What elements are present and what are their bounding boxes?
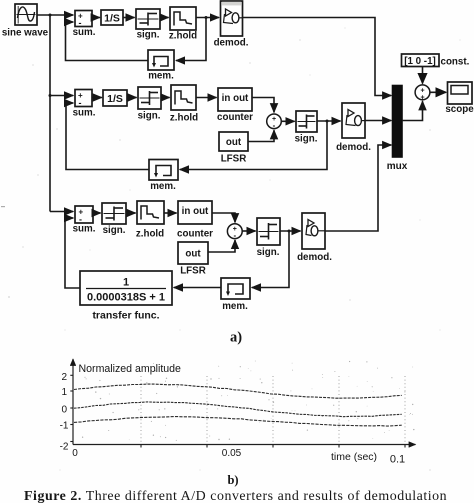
sign block row2 second (295, 111, 318, 145)
zero-order hold block row2 (170, 85, 198, 124)
svg-text:2: 2 (61, 372, 67, 383)
wire memory row1 back to sum S1 minus input (66, 22, 149, 61)
wire sign to z.hold row2 (161, 97, 170, 99)
zero-order hold block row1 (169, 7, 197, 42)
memory block row2 (149, 160, 178, 193)
wire demod3 output up to mux input 3 (325, 145, 391, 231)
svg-text:1: 1 (123, 277, 129, 289)
LFSR block row3 (178, 242, 208, 277)
svg-text:demod.: demod. (336, 142, 371, 153)
svg-text:+: + (420, 95, 424, 102)
svg-text:1: 1 (61, 387, 67, 398)
svg-text:1/S: 1/S (104, 13, 120, 25)
svg-text:0.1: 0.1 (390, 454, 405, 466)
svg-text:LFSR: LFSR (180, 266, 206, 277)
node: junction to memory row2 (326, 120, 329, 123)
wire memory row3 to transfer function (174, 287, 221, 289)
svg-text:mem.: mem. (148, 71, 174, 82)
svg-text:scope: scope (445, 104, 474, 115)
wire sum circle to sign2b (281, 120, 294, 122)
svg-text:b): b) (227, 473, 238, 487)
wire main bus branch to sum S3 plus input (50, 211, 73, 213)
counter block row2 (217, 88, 253, 123)
sum S2 (73, 90, 96, 119)
dotted gridlines (141, 376, 405, 443)
svg-text:sign.: sign. (295, 134, 318, 145)
wire junction down to memory row1 (176, 18, 206, 61)
svg-text:-2: -2 (60, 442, 69, 453)
wire sign to z.hold row1 (160, 17, 169, 19)
wire demod1 output to mux input 1 (243, 18, 391, 96)
svg-text:out: out (185, 249, 201, 260)
wire sum S1 to integrator (92, 17, 100, 19)
scan speckle noise (82, 361, 415, 441)
constant block [1 0 -1] (402, 54, 470, 68)
svg-text:Normalized amplitude: Normalized amplitude (79, 363, 182, 375)
wire sign to z.hold row3 (126, 212, 136, 214)
wire 1/S to sign row1 (123, 17, 135, 19)
sign block row3 second (257, 218, 280, 258)
svg-text:sign.: sign. (138, 111, 161, 122)
wire LFSR row3 to sum circle bottom (208, 240, 235, 252)
wire sum S3 to sign row3 (93, 212, 101, 214)
wire demod2 output to mux input 2 (365, 120, 391, 122)
svg-text:sum.: sum. (73, 27, 96, 38)
wire mux output to sum circle bottom (402, 101, 423, 120)
wire z.hold to demod row1 (196, 17, 219, 19)
x ticks (141, 445, 405, 448)
svg-text:demod.: demod. (297, 252, 332, 263)
svg-text:-: - (79, 98, 82, 108)
svg-text:mem.: mem. (222, 301, 248, 312)
sign block row3 (102, 203, 126, 236)
svg-text:sign.: sign. (257, 247, 280, 258)
wire z.hold to counter row2 (196, 97, 217, 99)
svg-text:sine wave: sine wave (2, 28, 49, 39)
svg-text:Figure 2. Three different A/D: Figure 2. Three different A/D converters… (24, 489, 447, 503)
svg-text:z.hold: z.hold (136, 229, 164, 240)
sign block row1 (136, 9, 160, 41)
svg-text:out: out (226, 137, 242, 148)
node: bus junction row2 (49, 94, 52, 97)
output sum circle (415, 85, 430, 102)
sum circle row3 (227, 224, 242, 240)
node: sine output junction (49, 14, 52, 17)
wire counter row2 to sum circle top (252, 98, 274, 113)
svg-text:LFSR: LFSR (221, 154, 247, 165)
svg-text:mem.: mem. (150, 181, 176, 192)
svg-text:in out: in out (182, 206, 209, 217)
wire: main vertical bus from junction down to rows 2 and 3 (49, 15, 51, 212)
wire sum circle to sign3b (242, 230, 255, 232)
svg-text:0.0000318S + 1: 0.0000318S + 1 (87, 292, 165, 304)
svg-text:-1: -1 (60, 421, 69, 432)
svg-text:mux: mux (387, 161, 408, 172)
svg-text:transfer func.: transfer func. (92, 310, 159, 322)
demodulated curve 2 (middle) (74, 402, 402, 417)
svg-text:-: - (233, 231, 236, 240)
svg-text:counter: counter (177, 229, 213, 240)
x axis (73, 444, 416, 446)
wire sum circle to scope (430, 91, 446, 93)
wire const to output sum circle (422, 67, 424, 84)
svg-text:+: + (420, 88, 424, 95)
sum S1 (73, 11, 96, 39)
plot text labels (60, 363, 406, 466)
demodulated curve 1 (top) (74, 384, 402, 398)
svg-text:0: 0 (61, 405, 67, 416)
wire memory row2 back to sum S2 minus input (66, 103, 149, 170)
wire 1/S to sign row2 (127, 97, 137, 99)
memory block row3 (221, 278, 250, 312)
transfer function block row3 (80, 271, 172, 322)
zero-order hold block row3 (136, 201, 164, 240)
wire sine wave to sum S1 (37, 14, 73, 16)
svg-text:counter: counter (217, 112, 253, 123)
demodulated curve 3 (bottom) (74, 417, 402, 427)
wire LFSR row2 to sum circle bottom (248, 130, 274, 141)
svg-text:a): a) (230, 330, 242, 346)
mux block (387, 86, 408, 173)
demodulator block row1 (214, 1, 249, 49)
node: z.hold1 output junction (205, 16, 208, 19)
svg-text:z.hold: z.hold (170, 113, 198, 124)
svg-text:time (sec): time (sec) (331, 451, 377, 463)
plot axes and labels (70, 359, 415, 448)
wire main bus branch to sum S2 plus input (50, 95, 73, 97)
svg-text:sum.: sum. (73, 224, 96, 235)
svg-text:sign.: sign. (137, 30, 160, 41)
sine wave source block (2, 4, 49, 39)
scope block (445, 82, 474, 115)
node: junction to memory row3 (288, 230, 291, 233)
svg-text:const.: const. (441, 57, 470, 68)
wire counter row3 to sum circle top (212, 213, 235, 222)
svg-text:[1 0 -1]: [1 0 -1] (404, 56, 436, 67)
sum S3 (73, 206, 96, 235)
wire sign2b to demod row2 (317, 120, 341, 122)
LFSR block row2 (219, 132, 248, 165)
wire junction down to memory row2 (180, 121, 327, 170)
svg-text:-: - (273, 121, 276, 130)
memory block row1 (148, 50, 174, 82)
integrator block 1/S row2 (103, 90, 127, 106)
wire sign3b to demod row3 (280, 230, 301, 232)
sign block row2 (138, 87, 161, 122)
svg-text:1/S: 1/S (107, 93, 123, 105)
counter block row3 (177, 201, 213, 240)
svg-text:in out: in out (222, 93, 249, 104)
integrator block 1/S row1 (101, 10, 123, 25)
y axis (72, 359, 74, 445)
demodulator block row3 (297, 213, 332, 263)
svg-text:z.hold: z.hold (169, 31, 197, 42)
svg-text:0: 0 (72, 448, 78, 459)
wire z.hold to counter row3 (164, 212, 177, 214)
svg-text:sign.: sign. (103, 225, 126, 236)
svg-text:demod.: demod. (214, 38, 249, 49)
wire junction down to memory row3 (252, 231, 289, 288)
svg-text:sum.: sum. (73, 108, 96, 119)
wire transfer function back to sum S3 minus input (65, 218, 80, 288)
wire sum S2 to integrator row2 (92, 97, 102, 99)
sum circle row2 (267, 114, 282, 130)
svg-text:0.05: 0.05 (222, 448, 242, 459)
demodulator block row2 (336, 103, 371, 153)
y ticks (70, 375, 73, 441)
